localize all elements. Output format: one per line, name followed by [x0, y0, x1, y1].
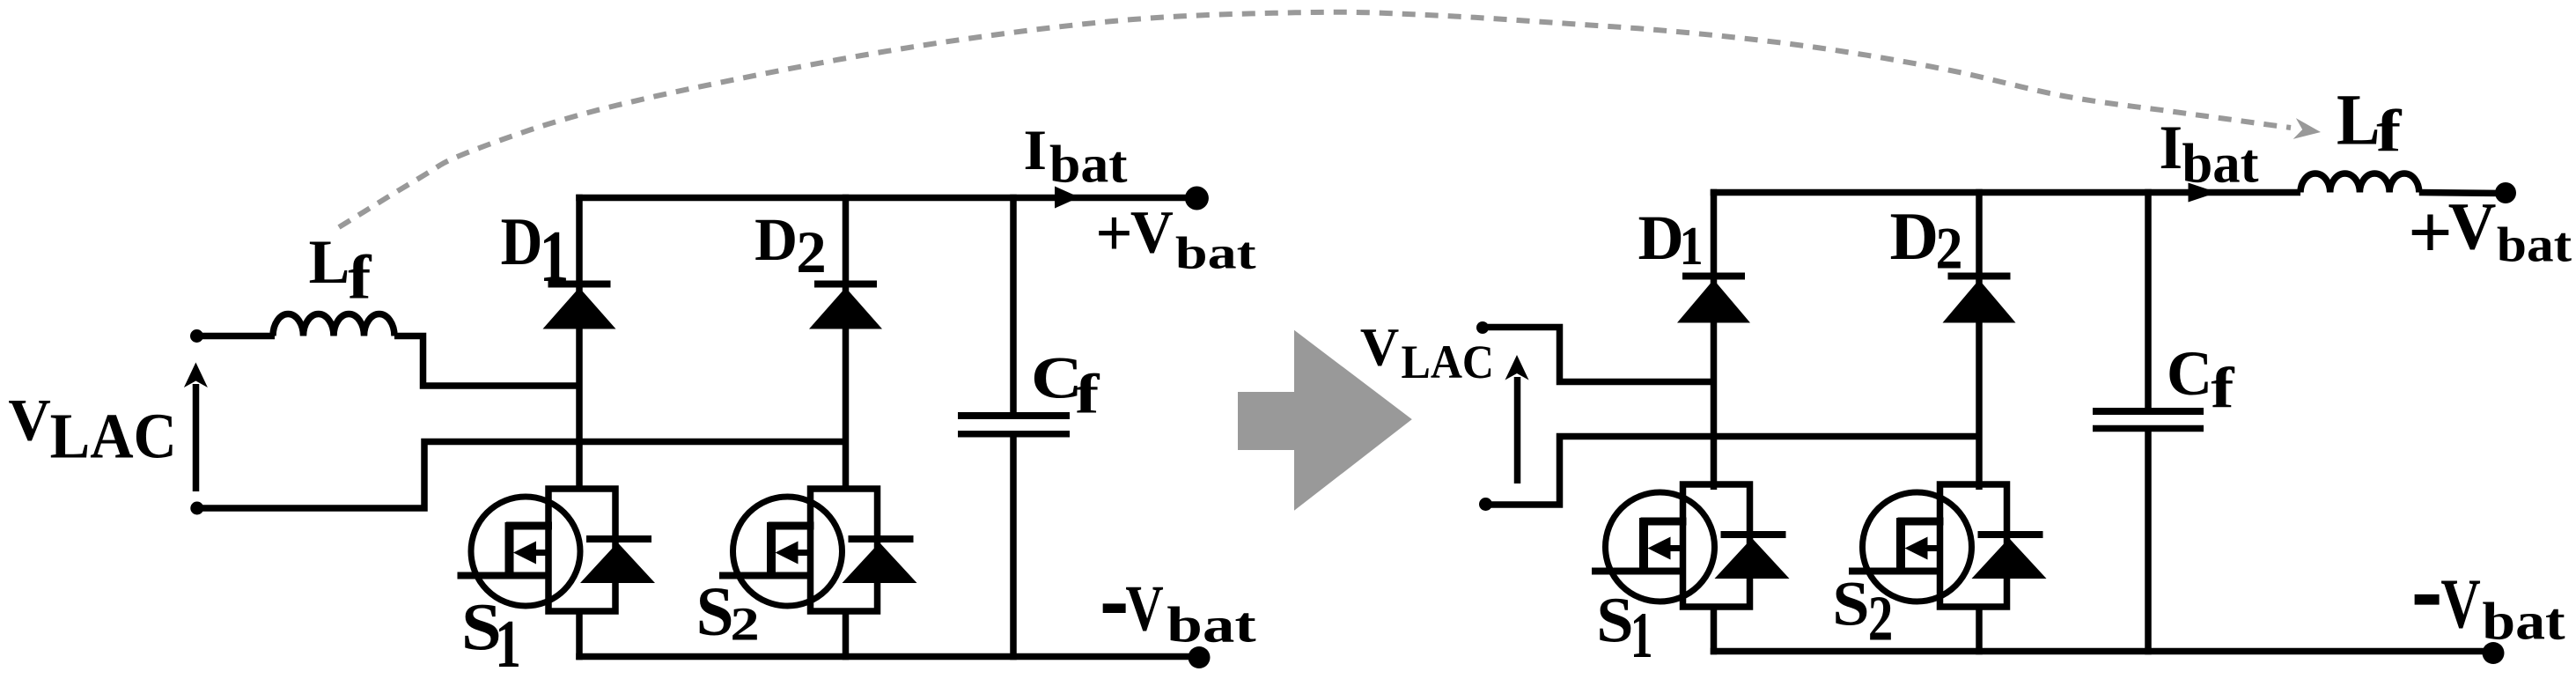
wire: top rail to S2 drain via D2 (left)	[843, 195, 850, 491]
wire: S1 source to bottom rail (right)	[1711, 604, 1718, 654]
svg-text:2: 2	[730, 598, 759, 650]
terminal dot -Vbat (right)	[2483, 642, 2505, 664]
transistor S1 MOSFET (left)	[458, 489, 656, 611]
wire: Lf to +Vbat terminal (right)	[2419, 193, 2506, 194]
svg-text:D: D	[1638, 203, 1684, 273]
transistor S1 MOSFET (right)	[1592, 484, 1790, 607]
dashed arrow: move Lf from input to output	[339, 12, 2291, 227]
wire: VLAC- terminal to D2 anode / S2 drain node (left)	[197, 442, 846, 509]
label -Vbat (left)	[1100, 536, 1256, 658]
wire: S2 source to bottom rail (left)	[843, 609, 850, 660]
svg-text:I: I	[1023, 120, 1047, 182]
svg-text:bat: bat	[2482, 592, 2565, 650]
current arrow Ibat (right)	[2189, 183, 2218, 203]
wire: Lf to D1 anode / S1 drain node (left)	[394, 336, 579, 387]
svg-text:bat: bat	[1167, 598, 1256, 653]
top rail to +Vbat (left)	[576, 195, 1196, 202]
svg-text:C: C	[2167, 338, 2212, 409]
svg-text:2: 2	[796, 218, 827, 285]
svg-text:L: L	[309, 228, 350, 297]
svg-text:D: D	[754, 206, 798, 273]
svg-text:I: I	[2159, 114, 2182, 182]
wire: VLAC+ terminal to D1 anode / S1 drain node (right)	[1483, 328, 1714, 382]
svg-text:D: D	[1889, 198, 1939, 274]
wire: S1 source to bottom rail (left)	[576, 609, 583, 660]
big gray arrow between circuits	[1238, 330, 1412, 511]
capacitor Cf (left)	[958, 416, 1070, 434]
label S2 (left)	[696, 572, 760, 651]
capacitor Cf (right)	[2093, 411, 2204, 429]
wire: VLAC- terminal to D2 anode / S2 drain node (right)	[1486, 437, 1980, 506]
svg-text:V: V	[1125, 572, 1163, 645]
svg-text:1: 1	[1630, 599, 1653, 672]
label -Vbat (right)	[2411, 520, 2566, 655]
svg-text:L: L	[2337, 80, 2380, 161]
label S1 (right)	[1596, 586, 1652, 671]
terminal dot VLAC- (left)	[190, 502, 203, 515]
svg-text:+: +	[2408, 190, 2453, 276]
inductor Lf (right)	[2300, 173, 2419, 193]
svg-text:f: f	[1075, 363, 1100, 424]
svg-text:f: f	[348, 243, 372, 313]
label Lf (left)	[309, 228, 372, 313]
label Cf (left)	[1031, 345, 1100, 425]
wire: S2 source to bottom rail (right)	[1976, 604, 1983, 654]
svg-text:1: 1	[540, 216, 570, 297]
label +Vbat (left)	[1095, 196, 1256, 277]
label Lf (right)	[2337, 80, 2403, 165]
label D1 (left)	[501, 203, 570, 297]
svg-text:1: 1	[495, 607, 521, 679]
wire: VLAC+ terminal to inductor Lf (left)	[197, 333, 276, 340]
wire: top rail to S2 drain via D2 (right)	[1976, 189, 1983, 490]
label VLAC (left)	[8, 387, 177, 472]
label D2 (left)	[754, 206, 827, 285]
wire: top rail to Cf (left)	[1010, 195, 1017, 414]
svg-text:D: D	[501, 203, 543, 279]
diode D2 (left)	[809, 284, 882, 329]
svg-text:bat: bat	[2497, 217, 2572, 272]
svg-text:1: 1	[1680, 216, 1704, 277]
svg-text:LAC: LAC	[1402, 336, 1495, 388]
terminal dot +Vbat (right)	[2495, 182, 2516, 203]
bottom rail to -Vbat (right)	[1711, 648, 2493, 655]
svg-text:2: 2	[1868, 584, 1894, 654]
svg-text:S: S	[1832, 569, 1869, 638]
terminal dot VLAC+ (right)	[1476, 321, 1489, 334]
svg-text:-: -	[2411, 520, 2443, 655]
label VLAC (right)	[1360, 317, 1494, 388]
terminal dot -Vbat (left)	[1189, 646, 1211, 668]
terminal dot VLAC- (right)	[1479, 498, 1492, 511]
diode D1 (right)	[1677, 277, 1750, 323]
transistor S2 MOSFET (right)	[1849, 484, 2047, 607]
terminal dot +Vbat (left)	[1185, 187, 1209, 210]
svg-text:V: V	[2448, 189, 2497, 263]
svg-text:V: V	[1130, 198, 1174, 265]
top rail (right)	[1711, 189, 2300, 196]
label +Vbat (right)	[2408, 189, 2572, 275]
wire: top rail to Cf (right)	[2145, 189, 2152, 411]
label Ibat (left)	[1023, 120, 1127, 194]
svg-text:S: S	[1596, 586, 1633, 656]
label S2 (right)	[1832, 569, 1893, 654]
svg-text:-: -	[1100, 536, 1129, 658]
wire: Cf to bottom rail (left)	[1010, 435, 1017, 660]
wire: Cf to bottom rail (right)	[2145, 430, 2152, 654]
terminal dot VLAC+ (left)	[190, 329, 203, 343]
diode D2 (right)	[1943, 277, 2016, 323]
diode D1 (left)	[543, 284, 616, 329]
svg-text:bat: bat	[2182, 132, 2258, 194]
svg-text:V: V	[8, 387, 50, 453]
label Ibat (right)	[2159, 114, 2258, 195]
svg-text:2: 2	[1936, 216, 1963, 282]
svg-text:bat: bat	[1175, 227, 1256, 277]
wire: top rail to S1 drain via D1 (left)	[576, 195, 583, 491]
svg-text:V: V	[1360, 317, 1399, 377]
transistor S2 MOSFET (left)	[719, 489, 917, 611]
svg-text:bat: bat	[1049, 135, 1128, 194]
svg-text:f: f	[2376, 97, 2403, 164]
svg-text:f: f	[2211, 356, 2234, 421]
label D2 (right)	[1889, 198, 1962, 282]
inductor Lf (left)	[273, 314, 394, 336]
source arrow VLAC (left)	[184, 363, 208, 492]
dashed arrow head	[2293, 118, 2322, 143]
wire: top rail to S1 drain via D1 (right)	[1711, 189, 1718, 490]
label D1 (right)	[1638, 203, 1704, 277]
svg-text:LAC: LAC	[50, 401, 177, 472]
current arrow Ibat (left)	[1055, 187, 1079, 209]
label Cf (right)	[2167, 338, 2234, 420]
svg-text:+: +	[1095, 196, 1132, 270]
bottom rail to -Vbat (left)	[576, 653, 1199, 661]
label S1 (left)	[461, 590, 521, 679]
svg-text:V: V	[2440, 565, 2480, 643]
svg-text:S: S	[696, 572, 734, 649]
source arrow VLAC (right)	[1505, 355, 1529, 483]
